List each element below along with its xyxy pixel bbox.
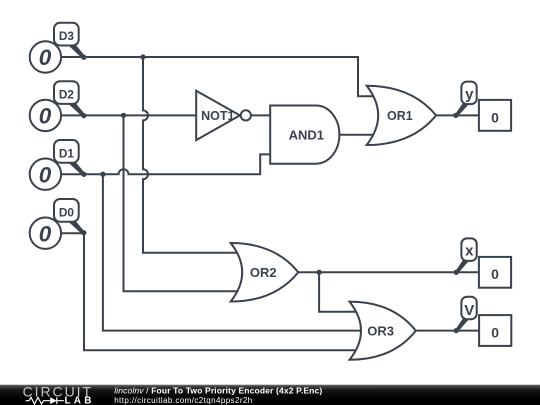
wire D0 down and right to OR3 bottom input — [62, 233, 356, 350]
wire D1 row to AND1 bottom input (hops over D2 branch) — [62, 154, 272, 174]
label D2 — [54, 81, 86, 118]
wire D2 branch down to OR2 bottom input — [124, 115, 239, 291]
svg-text:AND1: AND1 — [289, 128, 324, 143]
input source D3 — [30, 41, 61, 72]
wire OR1 output to y box — [436, 114, 479, 116]
svg-text:0: 0 — [39, 45, 52, 70]
footer logo resistor + diode symbol — [26, 397, 64, 404]
wire D3 branch down to OR2 top input (hops over D2 and D1 rows) — [143, 57, 238, 253]
output box V — [479, 315, 511, 346]
svg-text:V: V — [464, 302, 474, 319]
footer bar — [0, 385, 540, 405]
svg-text:0: 0 — [39, 162, 52, 187]
junction on D1 row — [100, 172, 105, 177]
wire OR2 output to x box — [298, 271, 479, 273]
or gate OR1 — [367, 86, 436, 145]
svg-text:0: 0 — [491, 109, 499, 125]
label D1 — [54, 140, 86, 177]
svg-text:OR2: OR2 — [250, 265, 277, 280]
input source D2 — [30, 100, 61, 131]
label D3 — [54, 23, 86, 60]
input source D1 — [30, 159, 61, 190]
svg-text:LAB: LAB — [65, 395, 95, 405]
wire AND1 output to OR1 bottom input — [339, 134, 376, 136]
label y — [453, 82, 477, 118]
svg-text:0: 0 — [39, 104, 52, 129]
junction on OR2 output — [316, 270, 321, 275]
svg-text:lincolnv / Four To Two Priorit: lincolnv / Four To Two Priority Encoder … — [114, 386, 322, 396]
svg-text:0: 0 — [39, 221, 52, 246]
svg-text:D1: D1 — [59, 146, 75, 160]
wire D3 row to OR1 top input — [62, 57, 374, 96]
wire OR2 output branch down to OR3 top input — [319, 272, 359, 312]
or gate OR2 — [231, 243, 299, 302]
label D0 — [54, 199, 86, 235]
label x — [454, 238, 477, 275]
wire OR3 output to V box — [416, 330, 479, 332]
inverter NOT1 — [196, 91, 251, 140]
wire D2 row to NOT1 input — [62, 114, 196, 116]
svg-text:OR3: OR3 — [367, 323, 394, 338]
output box x — [479, 257, 511, 288]
and gate AND1 — [270, 106, 339, 164]
junction on D3 row — [140, 54, 145, 59]
svg-text:D2: D2 — [59, 88, 75, 102]
svg-text:D3: D3 — [59, 29, 75, 43]
svg-text:http://circuitlab.com/c2tqn4pp: http://circuitlab.com/c2tqn4pps2r2h — [114, 396, 252, 405]
output box y — [479, 100, 511, 131]
label V — [454, 297, 477, 334]
wire NOT1 output to AND1 top input — [251, 114, 272, 116]
junction on D2 row — [121, 113, 126, 118]
svg-text:0: 0 — [491, 324, 499, 340]
svg-text:D0: D0 — [59, 205, 75, 219]
svg-text:x: x — [465, 243, 474, 260]
or gate OR3 — [350, 302, 416, 360]
svg-text:NOT1: NOT1 — [201, 109, 234, 123]
svg-text:OR1: OR1 — [387, 109, 413, 123]
input source D0 — [30, 218, 61, 249]
svg-text:0: 0 — [491, 266, 499, 282]
wire D1 branch down to OR3 middle input — [103, 174, 361, 330]
svg-text:y: y — [465, 86, 474, 103]
